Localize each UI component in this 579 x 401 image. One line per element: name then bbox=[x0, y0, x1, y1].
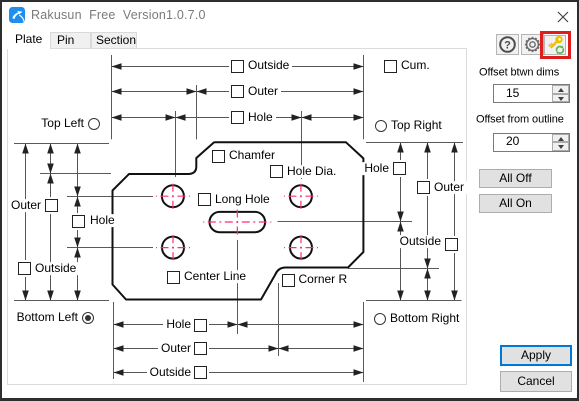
node centerline long hole bbox=[203, 207, 271, 236]
spinner value 20 bbox=[506, 135, 519, 148]
spin up button 2 bbox=[552, 134, 569, 143]
label Long Hole bbox=[212, 193, 273, 206]
checkbox Hole top bbox=[231, 111, 244, 124]
node centerline hole 4 bbox=[284, 232, 318, 263]
wire extension line top-left shelf bbox=[14, 143, 109, 145]
hole 2 bbox=[290, 185, 312, 207]
checkbox Chamfer bbox=[212, 150, 225, 163]
wire dimension line left Outer seg2 bbox=[47, 174, 54, 301]
hole 4 bbox=[290, 237, 312, 259]
label Outside right bbox=[397, 235, 444, 248]
spin up button bbox=[552, 85, 569, 94]
checkbox Hole Dia. bbox=[270, 165, 283, 178]
wire extension line hole1 top bbox=[175, 111, 177, 177]
tab label Plate bbox=[15, 33, 42, 46]
hole 3 bbox=[162, 237, 184, 259]
checkbox Corner R bbox=[282, 274, 295, 287]
spin down arrow bbox=[558, 97, 564, 101]
checkbox Cum. bbox=[384, 60, 397, 73]
wire dimension line left Outer seg1 bbox=[47, 144, 54, 174]
wire extension line long hole right bbox=[278, 221, 413, 223]
wire extension line hole3 left bbox=[67, 247, 153, 249]
settings button bbox=[521, 34, 544, 55]
wire extension line hole2 top bbox=[301, 111, 303, 179]
label Bottom Left bbox=[14, 311, 81, 324]
red highlight rectangle bbox=[540, 31, 571, 59]
wire extension line right edge bottom bbox=[363, 302, 365, 382]
wire dimension line bottom Hole seg1 bbox=[114, 321, 238, 328]
wire dimension line bottom Outer seg2 bbox=[279, 345, 364, 352]
spin up arrow 2 bbox=[558, 137, 564, 141]
wire dimension line top Hole seg2 bbox=[176, 114, 302, 121]
spinner offset btwn dims bbox=[493, 84, 570, 103]
label Outer bottom bbox=[158, 342, 194, 355]
label Center Line bbox=[181, 270, 249, 283]
wire extension line left step bbox=[40, 173, 111, 175]
app icon bbox=[9, 7, 25, 23]
spinner value 15 bbox=[506, 87, 519, 100]
hole 1 bbox=[162, 185, 184, 207]
tab Plate (active) bbox=[7, 30, 50, 50]
wire dimension line left Outside bbox=[22, 144, 29, 301]
label Outside bottom bbox=[147, 366, 194, 379]
wire dimension line left Hole seg1 bbox=[74, 144, 81, 197]
wire extension line hole1 left bbox=[67, 196, 153, 198]
wire dimension line top Hole seg1 bbox=[112, 114, 176, 121]
node centerline hole 1 bbox=[156, 181, 190, 212]
label Top Left bbox=[38, 117, 87, 130]
label Hole bottom bbox=[163, 318, 194, 331]
checkbox Center Line bbox=[167, 271, 180, 284]
checkbox Outer right bbox=[417, 181, 430, 194]
label Outer top bbox=[245, 85, 281, 98]
spin down button bbox=[552, 94, 569, 103]
node centerline hole 2 bbox=[284, 181, 318, 212]
label Outer left bbox=[8, 199, 44, 212]
wire extension line corner R bottom bbox=[278, 283, 280, 356]
label Hole Dia. bbox=[284, 165, 339, 178]
tab page pane bbox=[7, 48, 467, 385]
close button bbox=[554, 8, 572, 26]
label Outside left bbox=[32, 262, 79, 275]
tab label Pin bbox=[57, 34, 74, 47]
help button bbox=[496, 34, 519, 55]
checkbox Outside left bbox=[18, 262, 31, 275]
wire extension line bottom-left shelf bbox=[14, 300, 109, 302]
wire dimension line left Hole seg3 bbox=[74, 248, 81, 301]
checkbox Hole left bbox=[72, 215, 85, 228]
button All On bbox=[479, 194, 552, 213]
wire extension line step right bbox=[348, 268, 439, 270]
button All Off bbox=[479, 169, 552, 188]
checkbox Outside right bbox=[445, 238, 458, 251]
node centerline hole 3 bbox=[156, 232, 190, 263]
spin down arrow 2 bbox=[558, 145, 564, 149]
label Hole top bbox=[245, 111, 276, 124]
checkbox Outer bottom bbox=[194, 342, 207, 355]
label Cum. bbox=[398, 59, 433, 72]
tab Pin bbox=[50, 32, 91, 48]
label Outer right bbox=[431, 181, 467, 194]
radio Top Right bbox=[375, 120, 387, 132]
checkbox Outer top bbox=[231, 85, 244, 98]
wire extension line left edge bottom bbox=[113, 302, 115, 379]
button Apply bbox=[500, 345, 572, 366]
wire dimension line top Outer seg1 bbox=[112, 88, 197, 95]
spin down button 2 bbox=[552, 142, 569, 151]
label Hole right bbox=[361, 162, 392, 175]
wire dimension line right Hole seg1 bbox=[397, 143, 404, 222]
label Bottom Right bbox=[387, 312, 462, 325]
radio Bottom Left bbox=[82, 312, 94, 324]
checkbox Outside bottom bbox=[194, 366, 207, 379]
wire dimension line bottom Hole seg2 bbox=[238, 321, 364, 328]
wire dimension line left Hole seg2 bbox=[74, 197, 81, 248]
wire extension line right edge top bbox=[363, 55, 365, 139]
label Offset from outline bbox=[476, 114, 564, 126]
wire dimension line right Outer seg2 bbox=[424, 269, 431, 301]
label Outside top bbox=[245, 59, 292, 72]
wire dimension line bottom Outer seg1 bbox=[114, 345, 279, 352]
checkbox Outside top bbox=[231, 60, 244, 73]
checkbox Hole right bbox=[393, 162, 406, 175]
wire dimension line bottom Outside bbox=[114, 369, 364, 376]
long hole obround bbox=[210, 212, 266, 232]
radio Bottom Right bbox=[374, 313, 386, 325]
label Hole left bbox=[87, 214, 118, 227]
wire dimension line right Hole seg2 bbox=[397, 222, 404, 301]
radio Top Left bbox=[88, 118, 100, 130]
checkbox Long Hole bbox=[198, 193, 211, 206]
wire dimension line right Outer seg1 bbox=[424, 143, 431, 269]
button Cancel bbox=[500, 371, 572, 392]
title text bbox=[31, 9, 206, 23]
wire extension line chamfer top bbox=[196, 85, 198, 139]
spin up arrow bbox=[558, 88, 564, 92]
wire dimension line top Outer seg2 bbox=[197, 88, 364, 95]
wire extension line bottom-right shelf bbox=[366, 300, 462, 302]
wire dimension line top Hole seg3 bbox=[302, 114, 364, 121]
label Corner R bbox=[296, 273, 351, 286]
wire extension line long hole bottom bbox=[237, 240, 239, 334]
tab Section bbox=[91, 32, 137, 48]
label Offset btwn dims bbox=[479, 67, 559, 79]
label Top Right bbox=[388, 119, 445, 132]
tab label Section bbox=[96, 34, 136, 47]
wire dimension line top Outside bbox=[112, 63, 364, 70]
plate outline bbox=[113, 142, 364, 299]
checkbox Hole bottom bbox=[194, 319, 207, 332]
wire extension line top-right shelf bbox=[366, 142, 463, 144]
wire dimension line right Outside bbox=[451, 143, 458, 301]
wire extension line left edge top bbox=[111, 55, 113, 139]
license key button bbox=[544, 35, 566, 55]
label Chamfer bbox=[226, 149, 278, 162]
checkbox Outer left bbox=[45, 199, 58, 212]
spinner offset from outline bbox=[493, 133, 570, 152]
